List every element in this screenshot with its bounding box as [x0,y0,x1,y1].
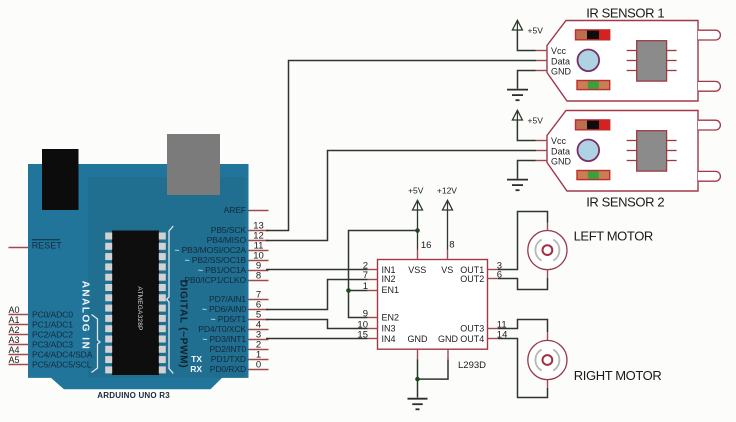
svg-text:RESET: RESET [32,241,63,251]
svg-text:IR SENSOR 2: IR SENSOR 2 [586,195,664,210]
svg-text:PD7/AIN1: PD7/AIN1 [209,294,246,304]
svg-text:~ PB1/OC1A: ~ PB1/OC1A [198,265,246,275]
svg-text:VSS: VSS [408,265,426,275]
svg-text:RIGHT MOTOR: RIGHT MOTOR [574,368,662,383]
svg-text:ANALOG IN: ANALOG IN [80,281,91,351]
svg-text:15: 15 [357,330,368,341]
svg-text:8: 8 [256,271,261,282]
svg-text:+5V: +5V [528,26,544,36]
svg-text:VS: VS [441,265,453,275]
svg-text:PD0/RXD: PD0/RXD [210,364,246,374]
svg-text:Vcc: Vcc [551,46,567,56]
svg-text:A4: A4 [9,345,20,355]
svg-text:8: 8 [449,239,454,250]
svg-text:TX: TX [191,354,202,364]
svg-text:PC5/ADC5/SCL: PC5/ADC5/SCL [32,360,92,370]
svg-text:~ PD6/AIN0: ~ PD6/AIN0 [202,304,246,314]
svg-text:GND: GND [551,156,572,166]
svg-text:1: 1 [363,281,368,292]
svg-text:PC2/ADC2: PC2/ADC2 [32,330,73,340]
svg-text:OUT4: OUT4 [460,334,484,344]
svg-text:GND: GND [408,334,429,344]
svg-text:Data: Data [551,146,570,156]
svg-text:+12V: +12V [437,185,457,195]
svg-text:+5V: +5V [408,185,424,195]
svg-text:A2: A2 [9,325,20,335]
svg-text:9: 9 [363,308,368,319]
svg-text:Data: Data [551,56,570,66]
svg-text:PD2/INT0: PD2/INT0 [209,344,246,354]
svg-text:PB5/SCK: PB5/SCK [211,225,247,235]
svg-text:~ PB2/SS/OC1B: ~ PB2/SS/OC1B [185,255,247,265]
svg-text:PD1/TXD: PD1/TXD [211,354,246,364]
svg-text:DIGITAL (~PWM): DIGITAL (~PWM) [178,280,189,369]
svg-text:~ PD5/T1: ~ PD5/T1 [211,314,247,324]
svg-text:PC4/ADC4/SDA: PC4/ADC4/SDA [32,350,93,360]
svg-text:Vcc: Vcc [551,136,567,146]
svg-text:+5V: +5V [528,116,544,126]
svg-text:ATMEGA328P: ATMEGA328P [136,286,143,330]
svg-text:PC3/ADC3: PC3/ADC3 [32,340,73,350]
svg-text:IN4: IN4 [382,334,396,344]
svg-text:A5: A5 [9,355,20,365]
svg-text:PD4/T0/XCK: PD4/T0/XCK [198,324,246,334]
svg-text:GND: GND [551,66,572,76]
svg-text:ARDUINO UNO R3: ARDUINO UNO R3 [97,391,170,400]
svg-text:AREF: AREF [224,205,246,215]
svg-text:A0: A0 [9,305,20,315]
svg-text:0: 0 [256,360,261,371]
svg-text:7: 7 [363,270,368,281]
svg-text:LEFT MOTOR: LEFT MOTOR [574,229,653,244]
svg-text:IN2: IN2 [382,274,396,284]
svg-text:~ PB3/MOSI/OC2A: ~ PB3/MOSI/OC2A [174,245,246,255]
svg-text:A1: A1 [9,315,20,325]
svg-text:RX: RX [190,364,202,374]
svg-text:PB0/ICP1/CLKO: PB0/ICP1/CLKO [184,275,246,285]
svg-text:L293D: L293D [458,360,486,371]
svg-text:OUT2: OUT2 [460,274,484,284]
svg-text:IN3: IN3 [382,324,396,334]
svg-text:A3: A3 [9,335,20,345]
svg-text:~ PD3/INT1: ~ PD3/INT1 [202,334,246,344]
svg-text:16: 16 [421,240,432,251]
svg-text:EN2: EN2 [382,313,400,323]
svg-text:IR SENSOR 1: IR SENSOR 1 [586,5,664,20]
svg-text:PC0/ADC0: PC0/ADC0 [32,310,73,320]
svg-text:EN1: EN1 [382,285,400,295]
svg-text:PC1/ADC1: PC1/ADC1 [32,320,73,330]
svg-text:OUT3: OUT3 [460,324,484,334]
svg-text:GND: GND [438,334,459,344]
svg-text:PB4/MISO: PB4/MISO [207,235,247,245]
